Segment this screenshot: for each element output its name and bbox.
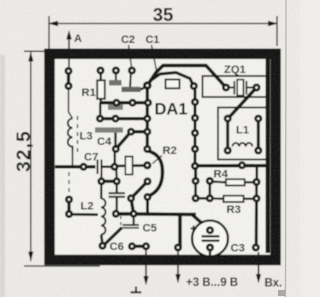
wire run y165.6 to rail bbox=[195, 164, 268, 168]
ground symbol bbox=[131, 287, 142, 293]
capacitor C6 dashed outline bbox=[120, 216, 122, 226]
node ZQ1 pads bbox=[222, 84, 230, 92]
wire link pad to run bbox=[146, 197, 149, 214]
pads bbox=[65, 67, 263, 252]
wire row y118.6 bbox=[100, 117, 147, 120]
node row y118 pads bbox=[96, 115, 104, 123]
node row y103 pads bbox=[113, 99, 121, 107]
node A pads bbox=[65, 67, 73, 75]
pad holes bbox=[67, 69, 259, 249]
wire C7 ground trace bbox=[55, 165, 96, 168]
wire A pad dumbbell bbox=[67, 71, 70, 86]
wire link rows bbox=[99, 103, 101, 119]
node R4 cluster pads bbox=[192, 177, 200, 185]
wire L2 bottom to C6 bbox=[101, 235, 102, 244]
inductor L3 dashed outline bbox=[77, 116, 79, 152]
node C1 junction pad bbox=[143, 81, 152, 90]
node top row pads bbox=[97, 67, 105, 75]
capacitor C4 body bbox=[95, 127, 123, 132]
wire row y213.8 bbox=[116, 212, 196, 216]
crystal ZQ1 box outline bbox=[203, 76, 267, 97]
wire A pad to L3 bbox=[69, 88, 73, 119]
node row y149 pads bbox=[112, 145, 120, 153]
wire row y103 bbox=[100, 101, 148, 104]
inductor L1 box outline bbox=[218, 108, 267, 160]
node L1 pads bbox=[224, 115, 232, 123]
resistor R3 body bbox=[224, 196, 244, 202]
dimension 35 label bbox=[153, 4, 174, 25]
inductor L1 pin links bbox=[226, 119, 229, 151]
wire pad leads to caps bbox=[115, 71, 117, 82]
wire R4 leads bbox=[210, 180, 226, 183]
wire link down to R4 cluster bbox=[194, 166, 197, 181]
node L2 dumbbell pads bbox=[65, 196, 73, 204]
input pin line bbox=[258, 252, 260, 276]
capacitor C3 plus mark bbox=[191, 226, 197, 232]
capacitor body gray bar 3 bbox=[108, 105, 123, 110]
wire +3V vertical bbox=[178, 215, 182, 248]
inductor L2 dashed outline bbox=[68, 172, 70, 192]
wire L2 horizontal lead bbox=[71, 213, 99, 216]
scan fold line right margin bbox=[285, 0, 288, 297]
wire R3 leads bbox=[210, 197, 224, 200]
node DA1 bottom pads bbox=[144, 177, 152, 185]
node C3 minus pad bbox=[206, 226, 214, 234]
node run y165 pad bbox=[238, 161, 246, 169]
capacitor C3 plates bbox=[202, 235, 220, 237]
dimension 32,5 label bbox=[14, 130, 35, 172]
wire L3 bottom lead bbox=[72, 148, 74, 167]
capacitor C7 plates bbox=[97, 160, 99, 175]
capacitor body gray bar 1 bbox=[109, 80, 122, 86]
wire right vertical rail bbox=[266, 58, 270, 253]
inductor L3 coil bbox=[68, 119, 73, 151]
wire bottom pads pair bbox=[132, 245, 146, 248]
wire diagonal to pad bbox=[116, 132, 131, 149]
wire ZQ1 right pad to L1 diagonal bbox=[228, 88, 257, 119]
wire fork to DA1 pin 1 bbox=[150, 73, 194, 86]
node row y131 pads bbox=[127, 128, 135, 136]
dimension line 32,5 bbox=[24, 51, 100, 266]
wire row y131.7 bbox=[131, 130, 147, 133]
wire C-curve bypass bbox=[147, 151, 163, 197]
wire diagonal into C3 bbox=[192, 215, 209, 230]
node cluster B pads bbox=[97, 177, 105, 185]
wire C4 vertical link bbox=[114, 153, 116, 167]
capacitor C2 label bbox=[121, 34, 135, 67]
dimension line 35 bbox=[48, 16, 278, 52]
wire C7 to pad bbox=[102, 166, 113, 168]
wire C5 to C6 diagonal bbox=[105, 228, 123, 245]
capacitor body gray bar 2 bbox=[122, 87, 141, 92]
ground pin line bbox=[145, 248, 147, 278]
wire L2 top lead bbox=[100, 183, 102, 199]
wire C3 ground lead bbox=[209, 248, 211, 256]
capacitor plates mid bbox=[109, 192, 126, 194]
power pin line bbox=[177, 249, 179, 276]
jumper small box bbox=[166, 80, 180, 89]
crystal ZQ1 symbol bbox=[229, 80, 253, 96]
node A arrow bbox=[66, 30, 82, 72]
PCB board outline frame bbox=[50, 54, 276, 260]
capacitor C5 plates bbox=[123, 224, 139, 226]
wire diagonal DA1 bottom bbox=[131, 181, 148, 198]
resistor R1 body bbox=[97, 80, 105, 99]
wire G2 stub bbox=[139, 87, 146, 90]
scan shading left edge bbox=[0, 55, 5, 297]
node bottom row pads bbox=[99, 242, 107, 250]
capacitor C1 label bbox=[145, 34, 159, 71]
inductor L2 dumbbell bbox=[67, 200, 70, 215]
node DA1 right column pads bbox=[190, 82, 198, 90]
resistor R2 body bbox=[125, 157, 132, 175]
wire link C7 to cluster B bbox=[115, 167, 118, 181]
wire DA1 left pin column bbox=[146, 86, 149, 150]
resistor R4 body bbox=[226, 179, 245, 185]
wire R1 lead vertical bbox=[100, 71, 102, 103]
wire top power run to ZQ1 bbox=[147, 66, 226, 88]
wire node to R2 region bbox=[116, 164, 147, 167]
inductor L1 coil bbox=[233, 143, 253, 147]
wire row y181 bbox=[101, 180, 116, 183]
R2 leader line bbox=[153, 156, 163, 164]
wire right column verticals bbox=[255, 166, 258, 179]
capacitor C3 outline circle bbox=[192, 221, 228, 257]
node junction pad mid bbox=[143, 161, 151, 169]
node C7 pads bbox=[80, 163, 88, 171]
wire DA1 right pin column bbox=[194, 86, 197, 166]
inductor L2 coil bbox=[101, 199, 106, 235]
